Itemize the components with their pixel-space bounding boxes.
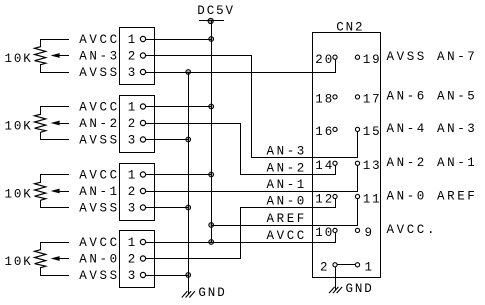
svg-text:DC5V: DC5V [197,4,235,18]
svg-text:AVSS: AVSS [387,50,427,64]
svg-text:1: 1 [128,33,137,47]
svg-text:.: . [427,223,436,237]
svg-text:AN-2: AN-2 [79,117,119,131]
svg-text:10K: 10K [5,119,33,133]
svg-text:AN-3: AN-3 [267,145,307,159]
svg-text:2: 2 [128,50,137,64]
svg-text:3: 3 [128,66,137,80]
svg-text:GND: GND [198,286,226,300]
svg-text:10: 10 [315,226,334,240]
svg-text:GND: GND [346,282,374,296]
svg-text:2: 2 [128,117,137,131]
svg-text:12: 12 [315,192,334,206]
svg-text:1: 1 [365,261,374,275]
svg-text:AVSS: AVSS [79,66,119,80]
svg-text:2: 2 [320,261,329,275]
svg-text:AN-2: AN-2 [387,156,427,170]
svg-text:18: 18 [315,93,334,107]
svg-text:AN-5: AN-5 [437,90,477,104]
svg-text:3: 3 [128,134,137,148]
svg-text:15: 15 [363,125,382,139]
svg-text:9: 9 [365,226,374,240]
svg-text:AN-3: AN-3 [437,122,477,136]
svg-text:CN2: CN2 [336,20,364,34]
svg-text:AN-1: AN-1 [437,156,477,170]
svg-text:AVSS: AVSS [79,133,119,147]
svg-text:AVCC: AVCC [79,236,119,250]
svg-text:16: 16 [315,125,334,139]
svg-text:3: 3 [128,269,137,283]
svg-text:10K: 10K [5,255,33,269]
svg-text:20: 20 [315,53,334,67]
svg-text:AVSS: AVSS [79,201,119,215]
svg-text:AREF: AREF [267,212,307,226]
svg-text:19: 19 [363,53,382,67]
svg-text:AVCC: AVCC [79,33,119,47]
svg-text:1: 1 [128,101,137,115]
svg-text:AN-1: AN-1 [79,185,119,199]
svg-text:AVCC: AVCC [79,100,119,114]
svg-text:AVCC: AVCC [267,229,307,243]
svg-text:AVCC: AVCC [387,223,427,237]
svg-text:10K: 10K [5,187,33,201]
svg-text:13: 13 [363,159,382,173]
svg-text:AN-3: AN-3 [79,49,119,63]
svg-text:1: 1 [128,236,137,250]
svg-text:14: 14 [315,159,334,173]
svg-text:17: 17 [363,93,382,107]
svg-text:AN-2: AN-2 [267,162,307,176]
svg-text:AN-0: AN-0 [387,189,427,203]
svg-text:2: 2 [128,185,137,199]
svg-text:2: 2 [128,253,137,267]
svg-text:AVCC: AVCC [79,168,119,182]
svg-text:AREF: AREF [437,189,477,203]
svg-text:1: 1 [128,169,137,183]
svg-text:AN-7: AN-7 [437,50,477,64]
svg-text:3: 3 [128,202,137,216]
svg-text:AN-0: AN-0 [79,252,119,266]
svg-text:AN-1: AN-1 [267,178,307,192]
svg-text:AN-4: AN-4 [387,122,427,136]
svg-text:11: 11 [363,192,382,206]
svg-text:AN-0: AN-0 [267,195,307,209]
svg-text:AN-6: AN-6 [387,90,427,104]
svg-text:AVSS: AVSS [79,269,119,283]
svg-text:10K: 10K [5,52,33,66]
